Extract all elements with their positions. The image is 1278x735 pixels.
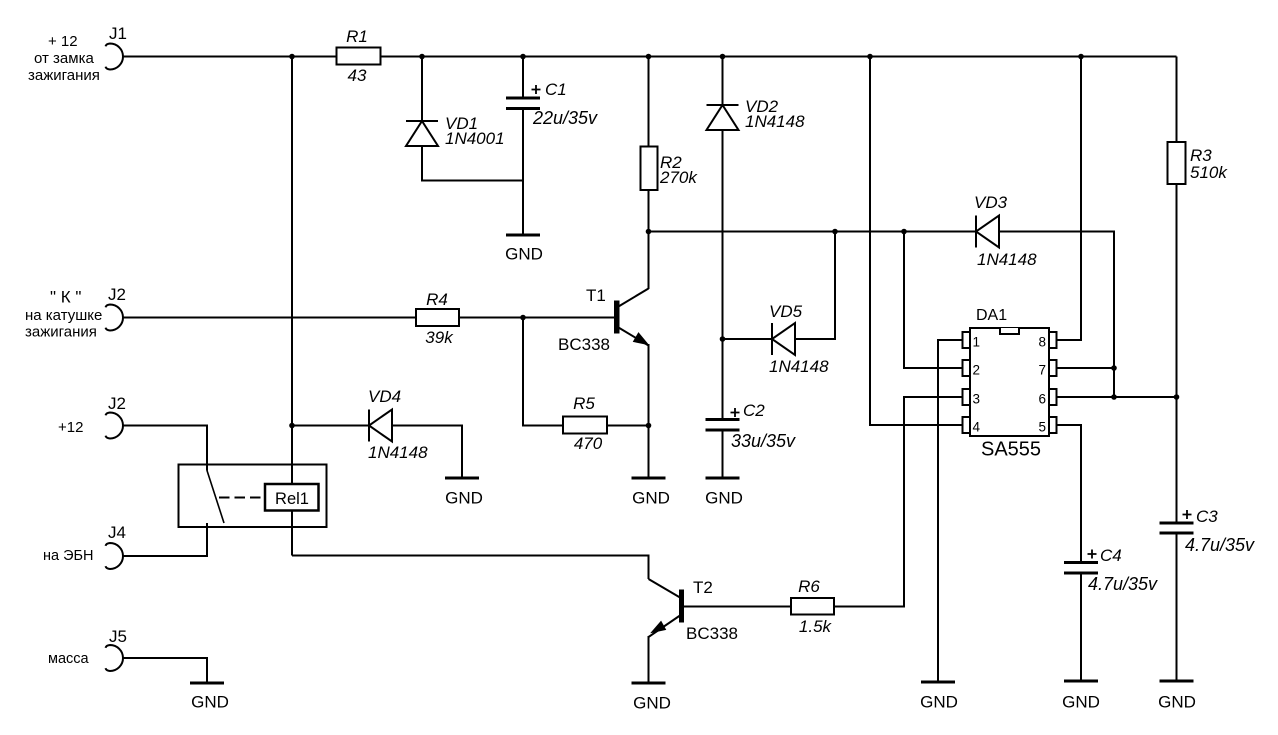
svg-text:C4: C4 — [1100, 546, 1122, 565]
svg-text:39k: 39k — [425, 328, 454, 347]
resistor R1 — [337, 27, 381, 85]
wire J5 to ground — [123, 658, 208, 683]
svg-text:R6: R6 — [798, 577, 820, 596]
wire VD2 to C2 top plate — [722, 130, 724, 419]
ground J5 — [190, 683, 229, 712]
wire R3 branch vertical — [1176, 57, 1178, 523]
svg-text:1N4001: 1N4001 — [445, 129, 505, 148]
svg-text:" К ": " К " — [50, 288, 81, 307]
junction top rail C1 — [520, 54, 526, 60]
svg-text:GND: GND — [632, 489, 670, 508]
wire pin 7 — [1057, 367, 1115, 369]
svg-text:GND: GND — [505, 245, 543, 264]
svg-text:4: 4 — [973, 420, 981, 435]
diode VD2 — [707, 97, 806, 131]
relay Rel1 — [179, 465, 327, 528]
wire C2 bottom lead to ground — [722, 432, 724, 479]
svg-text:1N4148: 1N4148 — [769, 357, 829, 376]
resistor R4 — [416, 290, 459, 347]
svg-text:4.7u/35v: 4.7u/35v — [1185, 535, 1255, 555]
svg-text:22u/35v: 22u/35v — [532, 108, 598, 128]
transistor T1 — [558, 286, 649, 354]
svg-text:6: 6 — [1038, 392, 1046, 407]
capacitor C1 — [506, 80, 598, 128]
wire VD1 cathode to C1 ground net — [422, 146, 523, 181]
connector J1 — [28, 24, 127, 84]
svg-text:2: 2 — [973, 363, 981, 378]
wire C4 bottom lead to ground — [1080, 575, 1082, 682]
wire VD4 anode to ground — [392, 426, 462, 479]
diode VD5 — [769, 302, 829, 376]
svg-text:GND: GND — [1158, 693, 1196, 712]
svg-text:от замка: от замка — [34, 50, 94, 67]
svg-text:J4: J4 — [108, 523, 126, 542]
diode VD1 — [406, 114, 505, 148]
ground T1 — [632, 478, 670, 508]
resistor R2 — [641, 147, 699, 191]
diode VD3 — [974, 193, 1037, 269]
junction R4 to R5 — [520, 315, 526, 321]
wire VD4 junction to VD4 cathode — [292, 425, 369, 427]
wire VD5 anode to rail2 — [795, 232, 835, 340]
diode VD4 — [368, 387, 428, 462]
junction R5 T1 emitter — [646, 423, 652, 429]
wire VD1 anode lead from top rail — [421, 57, 423, 122]
connector J5 — [48, 627, 127, 671]
junction pin6 R3 — [1174, 394, 1180, 400]
svg-text:BC338: BC338 — [558, 335, 610, 354]
svg-text:R1: R1 — [346, 27, 368, 46]
ground C2 — [705, 478, 743, 508]
wire +12 top rail — [123, 56, 1177, 58]
capacitor C2 — [706, 401, 797, 451]
wire pin 5 to C4 — [1057, 425, 1082, 562]
wire pin 6 to R3 bottom — [1057, 396, 1177, 398]
wire rail2 VD3 anode to pins 7 and 6 — [999, 232, 1114, 398]
svg-text:470: 470 — [574, 434, 603, 453]
svg-text:1N4148: 1N4148 — [977, 250, 1037, 269]
ground T2 — [632, 683, 671, 713]
svg-text:5: 5 — [1038, 420, 1046, 435]
connector J2b — [58, 394, 126, 439]
svg-text:J5: J5 — [109, 627, 127, 646]
svg-text:GND: GND — [1062, 693, 1100, 712]
svg-text:GND: GND — [705, 489, 743, 508]
svg-text:1N4148: 1N4148 — [368, 443, 428, 462]
ground C4 — [1062, 681, 1100, 712]
svg-text:VD5: VD5 — [769, 302, 803, 321]
resistor R5 — [563, 394, 607, 453]
svg-text:7: 7 — [1038, 363, 1046, 378]
svg-text:1: 1 — [973, 335, 981, 350]
svg-text:GND: GND — [920, 693, 958, 712]
svg-text:1.5k: 1.5k — [799, 617, 833, 636]
wire R2 branch / T1 collector vertical — [648, 57, 650, 290]
svg-text:DA1: DA1 — [976, 307, 1007, 324]
wire pin 2 to rail2 — [904, 232, 963, 369]
svg-text:1N4148: 1N4148 — [745, 112, 805, 131]
wire C3 bottom lead to ground — [1176, 535, 1178, 682]
svg-text:масса: масса — [48, 651, 90, 667]
svg-text:C2: C2 — [743, 401, 765, 420]
connector J2 — [25, 285, 126, 341]
wire pin 8 to top rail — [1057, 57, 1082, 341]
svg-text:510k: 510k — [1190, 163, 1228, 182]
wire x870 vertical from top rail to pin 4 — [870, 57, 963, 426]
svg-text:GND: GND — [633, 694, 671, 713]
ground pin1 — [920, 682, 958, 712]
svg-text:+12: +12 — [58, 419, 83, 436]
svg-text:4.7u/35v: 4.7u/35v — [1088, 574, 1158, 594]
junction top rail x292 — [289, 54, 295, 60]
svg-text:8: 8 — [1038, 335, 1046, 350]
junction pin7 x1114 — [1111, 365, 1117, 371]
svg-text:43: 43 — [348, 66, 367, 85]
junction top rail x870 — [867, 54, 873, 60]
svg-text:VD4: VD4 — [368, 387, 401, 406]
svg-text:J2: J2 — [108, 394, 126, 413]
svg-text:33u/35v: 33u/35v — [731, 431, 796, 451]
junction top rail pin8 — [1078, 54, 1084, 60]
wire relay coil to T2 collector — [292, 556, 649, 580]
junction top rail R2 — [646, 54, 652, 60]
resistor R3 — [1168, 142, 1229, 184]
svg-text:зажигания: зажигания — [28, 67, 100, 84]
wire T1 emitter to ground — [648, 344, 650, 478]
svg-text:Rel1: Rel1 — [275, 490, 309, 508]
ground VD4 — [445, 478, 483, 508]
svg-text:3: 3 — [973, 392, 981, 407]
svg-text:на катушке: на катушке — [25, 307, 102, 324]
svg-text:GND: GND — [191, 693, 229, 712]
svg-text:GND: GND — [445, 489, 483, 508]
wire VD2 top lead — [722, 57, 724, 106]
wire relay switch bottom to J4 — [123, 523, 208, 556]
wire T2 emitter to ground — [648, 636, 650, 683]
wire R4 node down to R5 — [523, 318, 649, 426]
svg-text:C3: C3 — [1196, 507, 1218, 526]
svg-text:J2: J2 — [108, 285, 126, 304]
connector J4 — [43, 523, 126, 569]
wire pin 3 to R6 — [684, 397, 963, 607]
wire rail2 from T1 collector to VD3 cathode — [649, 231, 977, 233]
wire C1 top lead — [522, 57, 524, 99]
junction top rail VD2 — [720, 54, 726, 60]
svg-text:C1: C1 — [545, 80, 567, 99]
svg-text:R5: R5 — [573, 394, 595, 413]
wire VD5 cathode to C2 node — [723, 338, 773, 340]
wire x292 vertical from top rail to relay coil — [291, 57, 293, 556]
ground C3 — [1158, 681, 1196, 712]
wire J2b to relay switch — [123, 426, 208, 471]
junction VD5 C2 — [720, 336, 726, 342]
junction rail2 VD5 — [832, 229, 838, 235]
IC DA1 SA555 — [963, 307, 1057, 461]
junction rail2 pin2 — [901, 229, 907, 235]
junction pin6 x1114 — [1111, 394, 1117, 400]
resistor R6 — [791, 577, 834, 636]
svg-text:на ЭБН: на ЭБН — [43, 548, 94, 564]
svg-text:VD3: VD3 — [974, 193, 1008, 212]
capacitor C3 — [1160, 507, 1256, 555]
transistor T2 — [649, 578, 738, 643]
capacitor C4 — [1064, 546, 1158, 594]
wire pin 1 to ground — [938, 340, 963, 682]
svg-text:270k: 270k — [659, 168, 698, 187]
svg-text:R4: R4 — [426, 290, 448, 309]
svg-text:T2: T2 — [693, 578, 713, 597]
junction VD4 relay coil — [289, 423, 295, 429]
svg-text:SA555: SA555 — [981, 439, 1041, 461]
junction top rail VD1 — [419, 54, 425, 60]
svg-text:+ 12: + 12 — [48, 33, 78, 50]
junction rail2 T1 collector — [646, 229, 652, 235]
wire J2 to R4 to T1 base — [123, 317, 615, 319]
svg-text:T1: T1 — [586, 286, 606, 305]
svg-text:BC338: BC338 — [686, 624, 738, 643]
svg-text:зажигания: зажигания — [25, 324, 97, 341]
ground C1 — [505, 235, 543, 264]
svg-text:J1: J1 — [109, 24, 127, 43]
wire C1 bottom lead to ground — [522, 109, 524, 236]
